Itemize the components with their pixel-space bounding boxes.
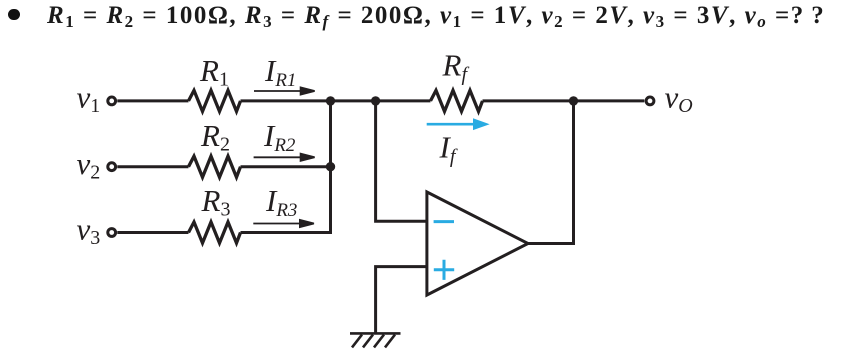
svg-text:R1: R1 <box>199 53 229 91</box>
node A junction dot <box>326 96 335 105</box>
resistor Rf <box>431 90 483 111</box>
wire v2 lead <box>117 165 188 168</box>
terminal vO <box>646 97 654 105</box>
wire node A to Rf <box>331 99 431 102</box>
output-node junction dot <box>569 96 578 105</box>
current arrow I_R1 <box>254 87 315 94</box>
op-amp plus sign <box>434 260 454 280</box>
svg-text:IR1: IR1 <box>264 53 296 91</box>
wire Rf to vO terminal <box>483 99 645 102</box>
svg-text:R2: R2 <box>200 118 230 156</box>
inverting-node junction dot <box>371 96 380 105</box>
terminal v3 <box>108 229 116 237</box>
svg-text:IR3: IR3 <box>265 183 297 221</box>
terminal v2 <box>108 163 116 171</box>
wire node A to inverting branch <box>376 101 427 221</box>
current arrow I_f (cyan) <box>427 120 486 128</box>
wire summing bus <box>329 101 332 233</box>
op-amp U1 <box>427 192 528 295</box>
current arrow I_R3 <box>253 220 314 227</box>
node B junction dot <box>326 162 335 171</box>
svg-text:v1: v1 <box>77 79 101 117</box>
wire v1 to node A <box>241 99 331 102</box>
resistor R3 <box>189 222 241 243</box>
wire op-amp output <box>528 101 574 244</box>
resistor R2 <box>189 156 241 177</box>
wire v1 lead <box>117 99 188 102</box>
terminal v1 <box>108 97 116 105</box>
svg-text:R3: R3 <box>201 183 231 221</box>
svg-text:IR2: IR2 <box>263 118 296 156</box>
svg-text:v3: v3 <box>77 212 101 250</box>
wire v2 to node A <box>241 165 331 168</box>
wire v3 lead <box>117 231 188 234</box>
problem statement text <box>47 2 825 30</box>
ground <box>350 333 401 347</box>
svg-text:v2: v2 <box>77 146 101 184</box>
svg-text:Rf: Rf <box>442 48 470 86</box>
svg-text:vO: vO <box>665 79 693 117</box>
resistor R1 <box>189 90 241 111</box>
current arrow I_R2 <box>254 154 315 161</box>
op-amp minus sign <box>434 220 454 223</box>
bullet <box>8 9 20 21</box>
wire v3 to bus <box>241 231 333 234</box>
wire non-inverting input <box>376 267 427 334</box>
svg-text:If: If <box>439 130 458 168</box>
